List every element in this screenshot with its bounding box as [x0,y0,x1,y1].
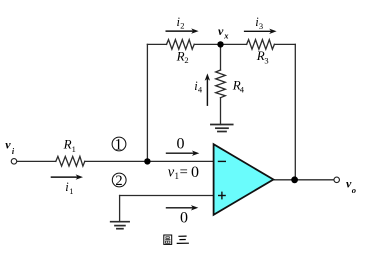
svg-text:1: 1 [175,171,180,181]
svg-text:R: R [176,48,185,63]
svg-text:v: v [218,24,224,38]
resistor R4 [216,70,226,98]
wire R2 to node vx to R3 [194,43,246,45]
svg-text:4: 4 [198,85,203,95]
ground at plus input [111,221,129,223]
wire R3 to right corner [274,43,295,45]
svg-text:i: i [12,147,15,156]
wire top horizontal left segment to R2 [147,43,166,45]
svg-text:2: 2 [115,173,122,189]
svg-text:1: 1 [69,186,73,196]
svg-text:0: 0 [191,164,199,181]
node label 1 (circled) [112,137,126,151]
node A junction dot (R1 / feedback / minus input) [144,158,150,164]
svg-text:v: v [5,138,11,152]
svg-text:1: 1 [115,136,123,153]
svg-text:o: o [352,185,356,195]
wire input from terminal to R1 [17,160,56,162]
wire R4 to ground [220,98,222,125]
wire plus-input vertical down to ground [119,196,121,222]
current arrow i1 [51,174,83,179]
op-amp U1 [214,144,274,215]
ground below R4 [211,124,233,126]
wire node vx down to R4 [220,44,222,70]
node label 2 (circled) [112,173,126,187]
caption glyph san (Chinese: three) [177,236,189,243]
resistor R3 [247,40,275,50]
node vx junction dot [217,41,223,47]
wire plus input horizontal [120,195,214,197]
input terminal (open circle) [11,159,17,165]
zero-current arrow at minus input [166,151,200,156]
wire R1 to node A to op-amp minus input [85,160,214,162]
op-amp minus pin label [218,160,226,162]
wire right vertical down to output node [294,44,296,179]
output node junction dot [291,176,298,183]
svg-text:3: 3 [259,21,263,31]
caption glyph tu (Chinese: figure) [164,235,172,244]
svg-text:4: 4 [240,85,245,95]
zero-current arrow at plus input [166,205,199,210]
current arrow i2 [166,28,199,33]
svg-text:0: 0 [180,209,188,226]
svg-text:x: x [223,30,229,40]
current arrow i4 (upward) [205,73,210,106]
svg-text:=: = [180,164,188,180]
svg-text:1: 1 [72,144,76,154]
resistor R1 [56,156,85,166]
svg-text:3: 3 [264,55,268,65]
op-amp plus pin label [218,192,226,200]
svg-text:R: R [63,136,72,151]
resistor R2 [167,40,195,50]
wire output from op-amp tip to terminal [273,179,334,181]
output terminal vo (open circle) [334,177,340,183]
current arrow i3 [244,29,277,34]
wire top-left vertical from node A up to R2 row [146,44,148,161]
svg-text:0: 0 [177,136,185,153]
svg-text:2: 2 [180,21,184,31]
svg-text:2: 2 [184,55,188,65]
